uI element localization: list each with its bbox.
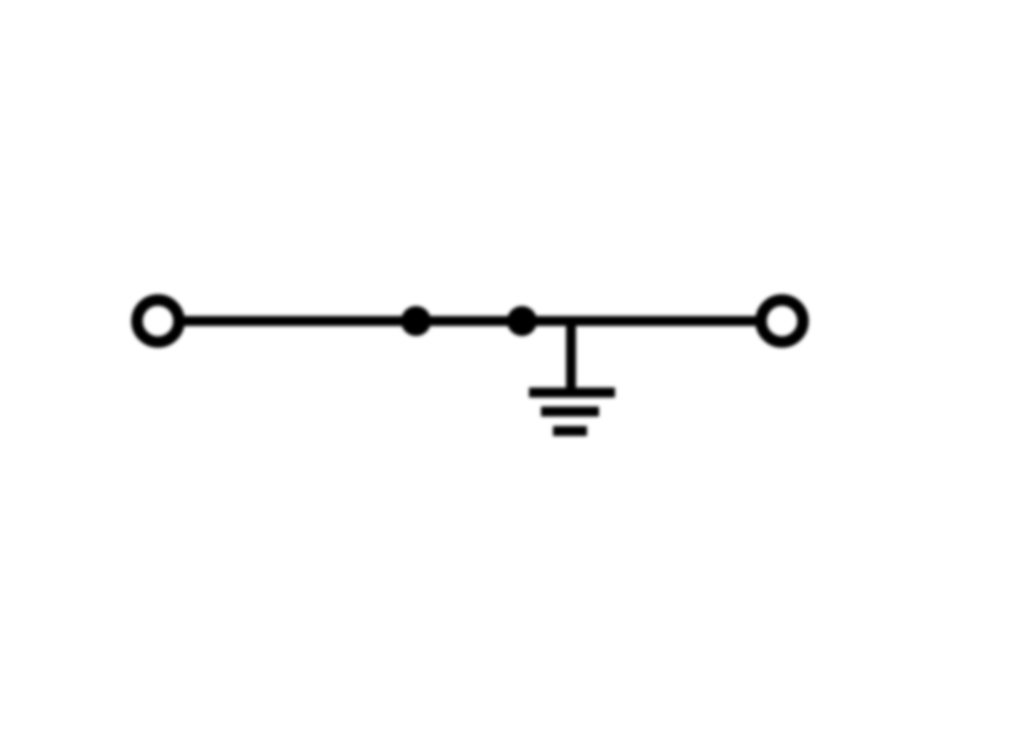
terminal (left)	[137, 300, 179, 342]
junction J1	[401, 306, 431, 336]
wire: left terminal to junction J1	[183, 316, 416, 326]
ground	[529, 393, 615, 432]
wire: ground stem	[566, 321, 576, 392]
wire: junction J1 to junction J2	[416, 316, 522, 326]
terminal (right)	[761, 300, 803, 342]
wire: junction J2 to right terminal	[522, 316, 757, 326]
junction J2	[507, 306, 537, 336]
